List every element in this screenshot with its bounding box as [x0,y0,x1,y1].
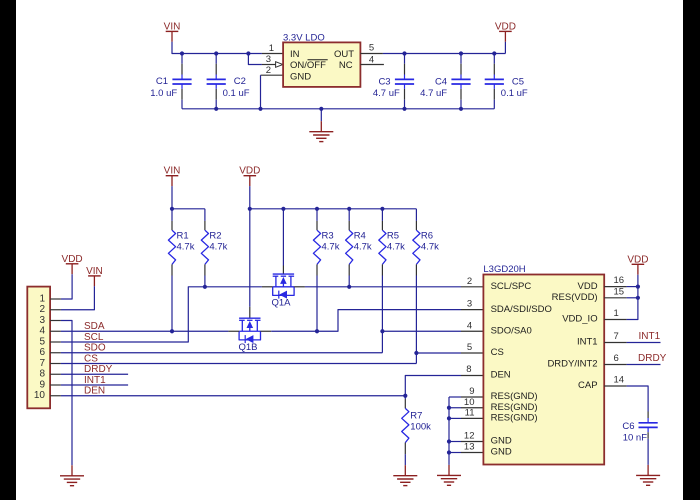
wire CS to IC pin5 [416,352,461,354]
net label SCL [84,332,104,343]
junction R3 top [315,207,319,211]
net label DRDY (IC) [638,353,667,364]
svg-text:VDD_IO: VDD_IO [562,314,597,325]
svg-text:14: 14 [614,375,625,386]
junction C1 top [180,51,184,55]
pin 15 stub IC [604,297,626,299]
IC U2 L3GD20H box [483,264,604,465]
wire LDO ON/OFF pin3 [248,54,262,65]
pin label 16 [614,275,625,286]
wire LDO output rail to VDD [383,53,506,55]
svg-text:RES(GND): RES(GND) [491,413,538,424]
resistor R1 4.7k [168,209,194,331]
svg-text:R7: R7 [410,411,422,422]
svg-text:7: 7 [614,331,619,342]
svg-text:SCL: SCL [84,332,104,343]
svg-text:4.7k: 4.7k [177,241,195,252]
regulator U1 3.3V LDO box [283,33,360,87]
wire CS [61,363,417,365]
wire Q1B gate drop [249,209,251,307]
junction C2 bottom [214,107,218,111]
svg-text:Q1A: Q1A [272,298,292,309]
svg-text:12: 12 [464,431,475,442]
pin 6 stub IC [604,364,626,366]
resistor R3 4.7k [313,209,339,331]
power flag VIN (top) [164,21,181,41]
junction bus pin11 [447,416,451,420]
power flag VIN (middle) [164,166,181,186]
pin stub header 6 [50,352,61,354]
header pin number 1 [39,293,45,304]
resistor R5 4.7k [379,209,405,331]
svg-text:OUT: OUT [334,49,354,60]
wire VIN to pin2 [61,286,95,309]
pin 5 stub IC [461,352,483,354]
resistor R7 100k [402,396,431,465]
pin stub header 2 [50,309,61,311]
wire gnd stem [320,109,322,121]
ground symbol (header) [60,465,84,485]
junction C4 bottom [459,107,463,111]
svg-text:R4: R4 [354,231,366,242]
svg-text:11: 11 [465,407,475,418]
header pin number 4 [39,326,45,337]
pin label 2 [467,276,472,287]
pin stub header 3 [50,320,61,322]
pin label 10 [464,397,475,408]
wire Q1A gate drop [282,209,284,266]
header pin number 8 [39,369,45,380]
svg-text:DRDY: DRDY [84,364,113,375]
wire CS riser [415,353,417,364]
svg-text:C4: C4 [435,77,447,88]
net label DRDY [84,364,113,375]
ground symbol (C6) [636,465,660,485]
junction bus pin13 [447,450,451,454]
IC pin name VDD_IO right [562,314,597,325]
pin 12 stub IC [461,441,483,443]
wire DRDY stub [627,364,661,366]
IC pin name GND left [491,436,512,447]
capacitor C2 [207,54,250,109]
svg-text:R6: R6 [421,231,433,242]
power flag VDD (top) [495,21,516,41]
svg-text:3: 3 [39,315,45,326]
pin label 3 [266,54,271,65]
svg-text:SCL/SPC: SCL/SPC [491,281,532,292]
capacitor C6 [622,412,657,444]
wire INT1 [61,384,128,386]
svg-text:0.1 uF: 0.1 uF [223,88,250,99]
pin label 5 [467,342,472,353]
wire pin1 VDD_IO riser [627,287,638,320]
pin stub Q1B drain [261,330,272,332]
pin 1 stub IC [604,319,626,321]
wire IC pin9 to bus [449,396,461,398]
pin 3 stub LDO ON/OFF with arrow [262,62,283,68]
wire SCL/SPC to IC pin2 [305,286,461,288]
svg-text:3: 3 [467,299,472,310]
pin stub Q1B gate [249,307,251,318]
IC pin name SDA/SDI/SDO left [491,304,552,315]
junction Q1A gate drop [281,207,285,211]
svg-text:C6: C6 [622,421,634,432]
svg-text:4.7k: 4.7k [322,241,340,252]
pin label 15 [614,286,625,297]
IC pin name RES(GND) left [491,413,538,424]
pin 2 stub IC [461,286,483,288]
junction R4 top [347,207,351,211]
junction bus pin10 [447,406,451,410]
net label CS [84,353,98,364]
svg-text:CS: CS [84,353,98,364]
junction gnd stem [319,107,323,111]
wire IC pin13 to bus [449,452,461,454]
svg-text:15: 15 [614,286,625,297]
wire IC pin11 to bus [449,417,461,419]
svg-text:4: 4 [369,55,374,66]
IC pin name GND left [491,447,512,458]
wire LDO GND pin2 [261,75,284,109]
header pin number 10 [34,390,46,401]
pin 16 stub IC [604,286,626,288]
wire IC pin10 to bus [449,407,461,409]
svg-text:3: 3 [266,54,271,65]
net label DEN [84,386,105,397]
svg-text:4: 4 [467,320,472,331]
svg-text:0.1 uF: 0.1 uF [501,88,528,99]
pin label 12 [464,431,475,442]
header pin number 6 [39,347,45,358]
svg-text:16: 16 [614,275,625,286]
IC pin name RES(GND) left [491,391,538,402]
svg-text:L3GD20H: L3GD20H [483,264,525,275]
wire C6 to ground [647,439,649,465]
svg-text:5: 5 [467,342,472,353]
IC pin name CS left [491,347,504,358]
wire SDA/SDI to IC pin3 [271,310,461,332]
pin label 13 [464,442,475,453]
pin 10 stub IC [461,407,483,409]
pin label 9 [469,386,474,397]
wire pin15 to VDD [627,297,638,299]
pin stub header 8 [50,373,61,375]
wire VIN stem to rail [171,186,173,209]
pin 4 stub LDO NC [360,64,384,66]
capacitor C1 [150,54,191,109]
net label INT1 [84,375,106,386]
svg-text:ON/OFF: ON/OFF [290,60,326,71]
svg-text:4.7k: 4.7k [209,241,227,252]
IC pin name RES(VDD) right [552,292,598,303]
svg-text:1: 1 [269,43,274,54]
resistor R4 4.7k [346,209,372,287]
header pin number 3 [39,315,45,326]
wire SDO riser [381,331,383,353]
svg-text:INT1: INT1 [577,337,598,348]
pin stub header 7 [50,363,61,365]
pin 8 stub IC [461,375,483,377]
IC pin name VDD right [578,281,598,292]
svg-text:6: 6 [39,347,45,358]
svg-text:INT1: INT1 [639,331,661,342]
junction R2 bottom SCL [203,285,207,289]
svg-text:8: 8 [39,369,45,380]
svg-text:CS: CS [491,347,504,358]
transistor Q1A [272,274,295,309]
pin label 8 [466,364,471,375]
wire INT1 stub [627,342,661,344]
pin stub header 1 [50,298,61,300]
svg-text:1.0 uF: 1.0 uF [150,88,177,99]
pin label 6 [614,353,619,364]
svg-text:VDD: VDD [578,281,598,292]
pin label 7 [614,331,619,342]
wire DEN [61,395,405,397]
pin 4 stub IC [461,330,483,332]
header pin number 9 [39,379,45,390]
wire SCL [61,287,262,342]
pin 11 stub IC [461,417,483,419]
resistor R6 4.7k [413,209,439,353]
wire IC pin12 to bus [449,441,461,443]
svg-text:DEN: DEN [491,370,511,381]
pin 14 stub IC [604,385,626,387]
IC pin name SCL/SPC left [491,281,532,292]
svg-text:SDO: SDO [84,343,106,354]
svg-text:10 nF: 10 nF [623,432,647,443]
ground symbol (R7) [393,465,417,485]
pin stub Q1B source [228,330,239,332]
svg-text:5: 5 [369,43,374,54]
header J1 box [27,287,50,409]
wire VDD drop [504,42,506,54]
wire VDD pullup rail [250,208,417,210]
junction LDO pin3 tap [246,51,250,55]
pin 7 stub IC [604,342,626,344]
svg-text:8: 8 [466,364,471,375]
svg-text:DEN: DEN [84,386,105,397]
pin label 11 [465,407,475,418]
wire DRDY [61,373,128,375]
wire pin16 to VDD [627,286,638,288]
svg-text:RES(GND): RES(GND) [491,402,538,413]
pin label 4 [369,55,374,66]
junction VDD pin16 [636,285,640,289]
svg-text:SDA/SDI/SDO: SDA/SDI/SDO [491,304,552,315]
svg-text:R3: R3 [322,231,334,242]
IC pin name SDO/SA0 left [491,325,532,336]
svg-text:4.7 uF: 4.7 uF [420,88,447,99]
junction R1 top [170,207,174,211]
wire VIN pullup rail [172,208,205,210]
wire VDD to pin1 [61,274,72,299]
svg-text:INT1: INT1 [84,375,106,386]
power flag VDD (IC) [627,254,648,274]
IC pin name CAP right [578,380,598,391]
svg-text:5: 5 [39,336,45,347]
junction VDD pin15 [636,296,640,300]
junction R4 bottom [347,285,351,289]
svg-text:2: 2 [39,304,45,315]
svg-text:6: 6 [614,353,619,364]
svg-text:4.7 uF: 4.7 uF [373,88,400,99]
junction SDO pin4 [380,329,384,333]
wire SDA [61,330,229,332]
svg-text:4.7k: 4.7k [387,241,405,252]
pin stub header 5 [50,341,61,343]
wire CAP to C6 [627,386,649,412]
svg-text:SDO/SA0: SDO/SA0 [491,325,532,336]
svg-text:R2: R2 [209,231,221,242]
pin 3 stub IC [461,309,483,311]
junction bus pin12 [447,439,451,443]
wire pin3 to ground [61,321,72,466]
IC pin name INT1 right [577,337,598,348]
transistor Q1B [239,318,261,353]
pin 13 stub IC [461,452,483,454]
junction pin2 gnd [258,107,262,111]
pin 5 stub LDO OUT [360,53,383,55]
svg-text:3.3V LDO: 3.3V LDO [283,33,325,44]
IC pin name DRDY/INT2 right [547,359,597,370]
junction C3 top [402,51,406,55]
IC pin name DEN left [491,370,511,381]
svg-text:NC: NC [339,60,353,71]
svg-text:DRDY/INT2: DRDY/INT2 [547,359,597,370]
pin stub Q1A drain [294,286,305,288]
pin stub header 4 [50,330,61,332]
wire VDD stem IC [637,275,639,287]
IC pin name RES(GND) left [491,402,538,413]
pin label 2 [266,65,271,76]
net label SDA [84,321,105,332]
capacitor C5 [485,54,528,109]
header pin number 7 [39,358,45,369]
power flag VIN (header) [86,266,103,286]
junction R3 bottom [315,329,319,333]
pin stub header 10 [50,395,61,397]
svg-text:CAP: CAP [578,380,598,391]
svg-text:GND: GND [290,71,311,82]
junction R5 top [380,207,384,211]
ground symbol (IC) [437,465,461,485]
svg-text:C1: C1 [156,76,168,87]
junction C5 top [492,51,496,55]
svg-text:2: 2 [266,65,271,76]
pin stub header 9 [50,384,61,386]
pin label 14 [614,375,625,386]
power flag VDD (header) [62,254,83,274]
svg-text:1: 1 [614,308,619,319]
junction VDD stem [248,207,252,211]
ground symbol (LDO) [309,121,333,141]
svg-text:2: 2 [467,276,472,287]
svg-text:1: 1 [39,293,45,304]
svg-text:100k: 100k [410,421,431,432]
junction C3 bottom [402,107,406,111]
wire DEN riser [405,376,461,396]
junction R1 bottom SDA [170,329,174,333]
capacitor C3 [373,54,414,109]
net label SDO [84,343,106,354]
svg-text:4.7k: 4.7k [354,241,372,252]
svg-text:C2: C2 [234,76,246,87]
svg-text:C3: C3 [378,77,390,88]
pin 1 stub LDO IN [262,53,283,55]
junction DEN R7 [403,394,407,398]
pin label 4 [467,320,472,331]
wire SDO [61,352,383,354]
svg-text:RES(GND): RES(GND) [491,391,538,402]
pin stub Q1A source [262,286,273,288]
svg-text:Q1B: Q1B [239,342,258,353]
header pin number 5 [39,336,45,347]
svg-text:SDA: SDA [84,321,105,332]
wire IC gnd bus [448,397,450,465]
svg-text:13: 13 [464,442,475,453]
svg-text:4: 4 [39,326,45,337]
svg-text:R1: R1 [177,231,189,242]
svg-text:GND: GND [491,436,512,447]
wire ground rail bottom [182,108,494,110]
svg-text:4.7k: 4.7k [421,241,439,252]
pin label 3 [467,299,472,310]
svg-text:10: 10 [34,390,46,401]
power flag VDD (middle) [239,166,260,186]
wire VDD stem [249,186,251,209]
capacitor C4 [420,54,470,109]
wire VIN to input rail [172,42,262,54]
svg-text:10: 10 [464,397,475,408]
junction C2 top [214,51,218,55]
net label INT1 (IC) [639,331,661,342]
svg-text:RES(VDD): RES(VDD) [552,292,598,303]
svg-text:C5: C5 [512,77,524,88]
pin label 1 [269,43,274,54]
svg-text:GND: GND [491,447,512,458]
wire SDO to IC pin4 [382,330,461,332]
svg-text:R5: R5 [387,231,399,242]
pin label 5 [369,43,374,54]
header pin number 2 [39,304,45,315]
svg-text:DRDY: DRDY [638,353,667,364]
pin label 1 [614,308,619,319]
svg-text:9: 9 [469,386,474,397]
svg-text:7: 7 [39,358,45,369]
svg-text:9: 9 [39,379,45,390]
pin 9 stub IC [461,396,483,398]
resistor R2 4.7k [201,209,227,287]
junction C4 top [459,51,463,55]
junction CS pin5 [414,351,418,355]
pin stub Q1A gate [282,266,284,274]
svg-text:IN: IN [290,49,300,60]
